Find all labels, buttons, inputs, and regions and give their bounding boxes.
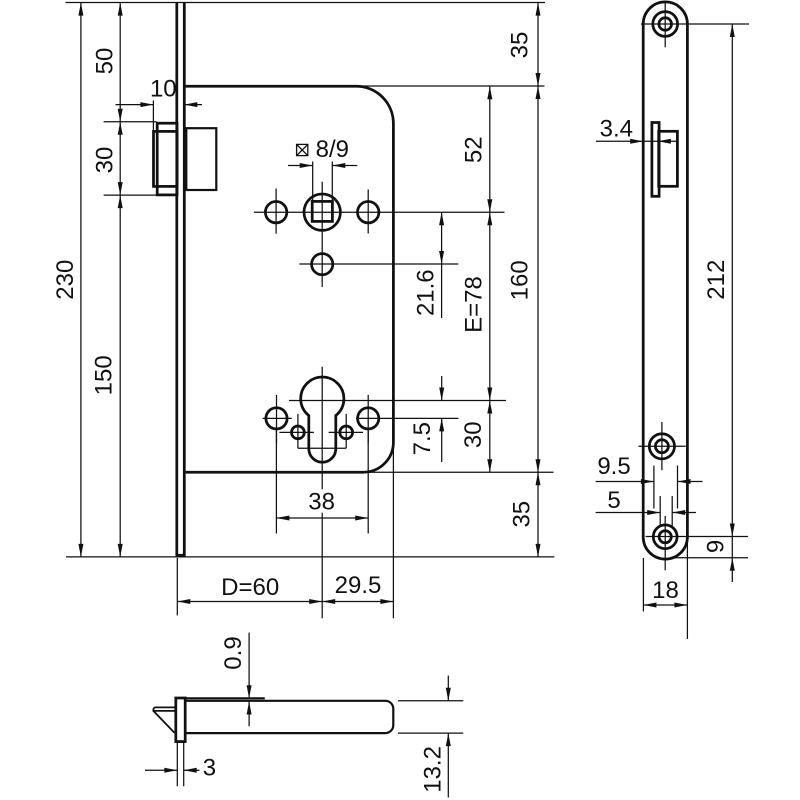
svg-text:150: 150 bbox=[91, 355, 118, 395]
dimension 9 bbox=[646, 537, 748, 571]
handle screw hole left bbox=[265, 202, 286, 223]
label square symbol bbox=[297, 144, 308, 155]
cover plate 0.9 bbox=[185, 697, 265, 699]
small screw hole left bbox=[292, 426, 305, 439]
svg-text:0.9: 0.9 bbox=[220, 636, 247, 669]
svg-text:29.5: 29.5 bbox=[335, 572, 382, 599]
dimension 9.5 bbox=[596, 453, 703, 509]
svg-text:35: 35 bbox=[509, 501, 536, 528]
dimension 50-30-150 line bbox=[118, 3, 123, 557]
centerline small hole right vertical bbox=[345, 414, 347, 448]
extension line case top bbox=[356, 85, 545, 87]
hole below spindle bbox=[312, 254, 333, 275]
dimension 13.2 bbox=[398, 676, 463, 798]
svg-text:230: 230 bbox=[52, 260, 79, 300]
extension line bolt bottom bbox=[104, 194, 157, 196]
dimension 10 bbox=[116, 76, 203, 131]
dimension 3 bbox=[145, 742, 216, 787]
centerline cyl-hole right horizontal bbox=[356, 417, 458, 419]
centerline cyl-hole right vertical bbox=[367, 395, 369, 443]
label 30 cylinder bbox=[460, 421, 487, 448]
svg-text:35: 35 bbox=[506, 32, 533, 59]
screw hole top bbox=[653, 12, 678, 37]
latch bolt (bottom view) bbox=[153, 707, 176, 732]
svg-text:8/9: 8/9 bbox=[316, 136, 349, 163]
spindle square hole bbox=[312, 201, 332, 221]
centerline lower hole horizontal bbox=[299, 263, 458, 265]
svg-text:E=78: E=78 bbox=[461, 276, 488, 333]
svg-text:212: 212 bbox=[703, 260, 730, 300]
centerline cylinder horizontal bbox=[289, 400, 506, 402]
latch cutout narrow bbox=[652, 123, 659, 197]
svg-text:18: 18 bbox=[652, 577, 679, 604]
centerline screw top bbox=[641, 1, 749, 48]
centerline screw middle bbox=[638, 422, 685, 470]
label 8/9 bbox=[316, 136, 349, 163]
svg-text:5: 5 bbox=[607, 487, 620, 514]
extension line bolt top bbox=[104, 121, 157, 123]
svg-text:D=60: D=60 bbox=[221, 574, 279, 601]
centerline spindle row horizontal bbox=[254, 211, 505, 213]
extension line case bottom bbox=[363, 471, 554, 473]
svg-text:9: 9 bbox=[703, 540, 730, 553]
dimension 18 bbox=[643, 537, 687, 639]
centerline small hole right horizontal bbox=[329, 431, 363, 433]
centerline left hole vertical bbox=[275, 189, 277, 234]
svg-text:3.4: 3.4 bbox=[600, 116, 633, 143]
cylinder fixing hole left bbox=[266, 408, 287, 429]
svg-text:10: 10 bbox=[150, 76, 177, 103]
centerline right hole vertical bbox=[367, 190, 369, 234]
dimension 5 bbox=[596, 487, 696, 527]
centerline cyl-hole left vertical bbox=[276, 395, 278, 443]
svg-text:52: 52 bbox=[461, 136, 488, 163]
handle screw hole right bbox=[358, 202, 379, 223]
dimension 7.5 bbox=[409, 376, 444, 462]
centerline cyl-hole left horizontal bbox=[263, 417, 292, 419]
centerline small hole left horizontal bbox=[279, 431, 314, 433]
euro cylinder hole bbox=[301, 377, 344, 462]
faceplate strip (side view) bbox=[643, 2, 687, 559]
latch bolt flange bbox=[157, 123, 177, 195]
label 35 bottom bbox=[509, 501, 536, 528]
spindle hub circle bbox=[304, 194, 340, 230]
dimension 230 bbox=[52, 3, 83, 557]
dimension 38 bbox=[276, 431, 368, 534]
faceplate (front view, edge-on) bbox=[176, 3, 186, 556]
latch cutout wide bbox=[659, 131, 678, 186]
svg-text:7.5: 7.5 bbox=[409, 422, 436, 455]
dimension 52-E78-30 line bbox=[487, 86, 492, 472]
centerline cylinder vertical lower bbox=[321, 513, 323, 619]
centerline screw bottom bbox=[664, 516, 666, 570]
svg-text:21.6: 21.6 bbox=[413, 269, 440, 316]
label 160 bbox=[506, 260, 533, 300]
svg-text:13.2: 13.2 bbox=[420, 746, 447, 793]
extension line faceplate bottom bbox=[66, 556, 554, 558]
lock case bar (bottom view) bbox=[185, 701, 393, 733]
label 30 latch bbox=[92, 147, 119, 174]
label 50 bbox=[91, 48, 118, 75]
svg-text:30: 30 bbox=[92, 147, 119, 174]
dimension 3.4 bbox=[596, 116, 677, 144]
dimension 212 bbox=[703, 24, 735, 582]
dimension 21.6 bbox=[413, 212, 445, 318]
dimension 0.9 bbox=[220, 633, 252, 727]
centerline small hole left vertical bbox=[297, 414, 299, 448]
centerline spindle vertical bbox=[321, 182, 323, 287]
latch bolt body (inside case) bbox=[186, 128, 216, 190]
connector small holes bbox=[298, 447, 346, 449]
screw hole middle bbox=[649, 434, 674, 459]
label E=78 bbox=[461, 276, 488, 333]
svg-text:160: 160 bbox=[506, 260, 533, 300]
lock case outline bbox=[186, 86, 394, 472]
dimension 35-160-35 line bbox=[536, 3, 541, 557]
svg-text:9.5: 9.5 bbox=[597, 453, 630, 480]
svg-text:30: 30 bbox=[460, 421, 487, 448]
svg-text:3: 3 bbox=[203, 755, 216, 782]
dimension 8/9 bbox=[288, 162, 357, 203]
dimension D=60 and 29.5 bbox=[177, 442, 393, 618]
cylinder fixing hole right bbox=[358, 408, 379, 429]
extension line faceplate top bbox=[66, 2, 546, 4]
label 35 top bbox=[506, 32, 533, 59]
faceplate plate (bottom view) bbox=[176, 698, 185, 742]
label 150 bbox=[91, 355, 118, 395]
screw hole bottom bbox=[653, 525, 677, 549]
label 52 bbox=[461, 136, 488, 163]
latch bolt head bbox=[154, 131, 178, 186]
centerline cylinder vertical upper bbox=[321, 367, 323, 490]
svg-text:38: 38 bbox=[308, 489, 335, 516]
svg-text:50: 50 bbox=[91, 48, 118, 75]
small screw hole right bbox=[340, 426, 353, 439]
